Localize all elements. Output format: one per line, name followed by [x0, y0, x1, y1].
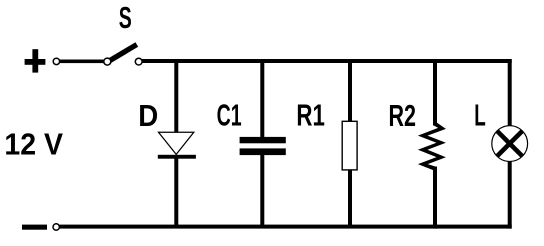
wire capacitor to bottom bus [260, 155, 264, 229]
wire top bus to resistor R1 [348, 59, 352, 122]
lamp L cross stroke 1 [497, 131, 522, 156]
wire diode cathode to bottom bus [174, 158, 178, 228]
capacitor C1 top plate [240, 137, 286, 143]
battery plus terminal symbol [25, 49, 46, 72]
resistor R1 body (rectangle) [342, 121, 357, 170]
wire resistor R2 to bottom bus [433, 167, 437, 229]
wire lamp to bottom bus [508, 160, 512, 229]
switch S lever [109, 45, 137, 62]
switch pivot terminal circle [104, 58, 111, 65]
resistor R2 zigzag body [418, 122, 446, 171]
diode D cathode bar [158, 155, 196, 159]
svg-text:L: L [474, 98, 486, 133]
node terminal circle at plus [53, 58, 59, 64]
capacitor C1 bottom plate [240, 148, 286, 155]
lamp L cross stroke 2 [497, 131, 522, 156]
svg-text:12 V: 12 V [4, 127, 63, 162]
bottom bus wire [59, 225, 511, 229]
battery minus terminal symbol [22, 225, 47, 230]
wire resistor R1 to bottom bus [348, 170, 352, 229]
diode D triangle (anode) [159, 132, 194, 154]
svg-text:R1: R1 [296, 98, 325, 133]
top bus wire [142, 59, 512, 63]
node terminal circle at minus [53, 224, 59, 230]
wire top bus to resistor R2 [433, 59, 437, 126]
wire top bus to lamp [508, 59, 512, 127]
svg-text:C1: C1 [217, 98, 242, 133]
wire top bus to diode anode [174, 59, 178, 133]
svg-text:D: D [138, 98, 158, 133]
svg-text:R2: R2 [389, 98, 417, 133]
wire top bus to capacitor [260, 59, 264, 138]
svg-text:S: S [119, 0, 132, 35]
switch open contact terminal circle [135, 58, 142, 65]
lamp L circle [492, 126, 528, 162]
wire from plus terminal to switch [58, 60, 106, 64]
